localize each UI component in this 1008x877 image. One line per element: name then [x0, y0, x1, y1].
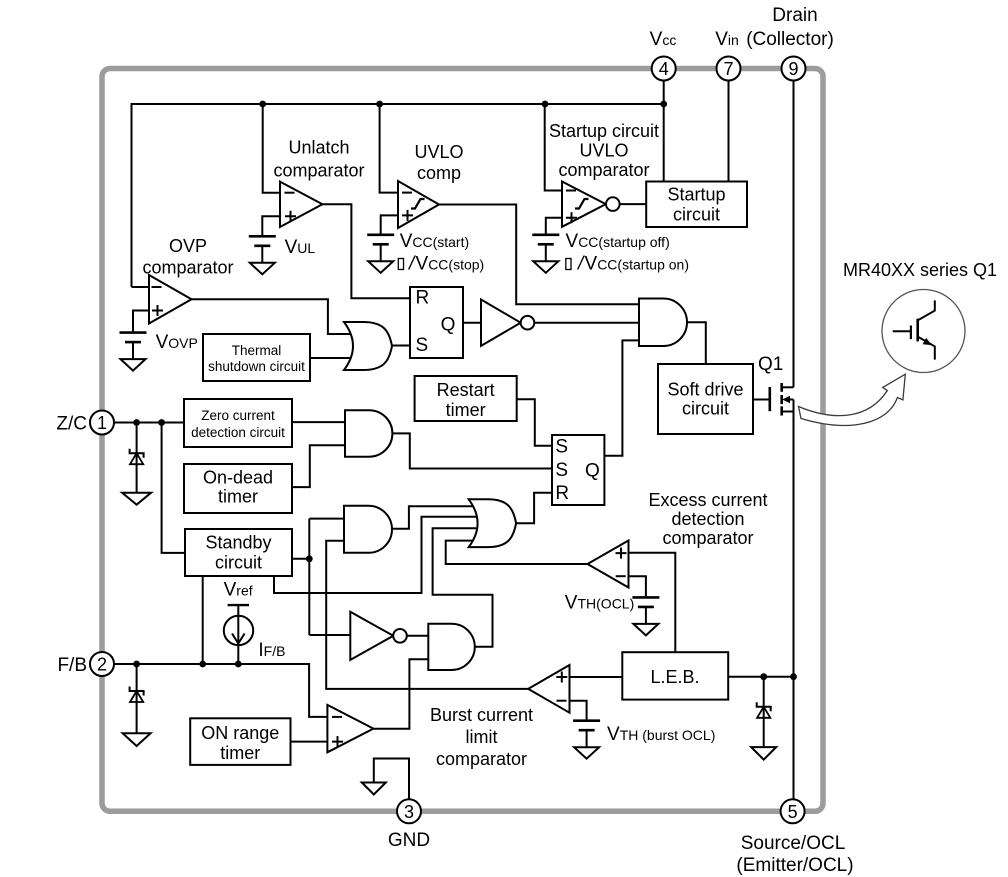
svg-text:(Collector): (Collector) [746, 29, 834, 50]
transistor Q1 MOSFET [768, 387, 771, 411]
zener diode at Z/C pin [136, 423, 138, 493]
svg-text:comparator: comparator [662, 528, 753, 548]
comparator unlatch [280, 182, 322, 227]
inverter after latch1 [481, 300, 521, 346]
comparator OVP [149, 275, 192, 324]
wire L.E.B. output to source line [728, 676, 793, 678]
wire Vcc top bus [132, 104, 664, 287]
MR40XX series Q1 circle [882, 290, 965, 373]
svg-text:circuit: circuit [682, 399, 729, 419]
svg-text:VCC(startup on): VCC(startup on) [585, 254, 690, 275]
svg-text:Q1: Q1 [758, 354, 783, 375]
node junction Z/C at zener [133, 419, 140, 426]
svg-text:VTH(OCL): VTH(OCL) [565, 593, 634, 614]
svg-text:limit: limit [466, 727, 498, 747]
svg-text:VUL: VUL [285, 237, 316, 258]
svg-text:VOVP: VOVP [156, 332, 198, 353]
comparator excess current detection [588, 541, 629, 588]
svg-text:detection circuit: detection circuit [191, 425, 285, 440]
node junction F/B at zener [133, 661, 140, 668]
zener diode at source line [763, 677, 765, 747]
svg-text:3: 3 [404, 802, 414, 822]
battery VTH(burst OCL) [573, 719, 600, 722]
wire ON range timer to comparator plus input [291, 741, 328, 743]
soft drive circuit block [658, 364, 753, 434]
svg-text:UVLO: UVLO [579, 141, 628, 161]
svg-text:2: 2 [97, 655, 107, 675]
on-dead timer block [184, 464, 292, 513]
svg-text:1: 1 [97, 413, 107, 433]
OR gate U1 (OVP/thermal) [344, 322, 392, 370]
svg-text:F/B: F/B [57, 655, 87, 676]
wire standby output branch vertical [308, 519, 310, 635]
svg-text:Q: Q [441, 315, 456, 336]
AND gate drive (3-input) [639, 299, 687, 347]
svg-text:VCC(start): VCC(start) [400, 231, 469, 252]
svg-text:GND: GND [388, 830, 430, 851]
curved arrow to MR40XX circle [799, 374, 906, 425]
wire restart timer to latch2 S input [517, 399, 552, 446]
svg-text:Burst current: Burst current [430, 705, 533, 725]
svg-text:Vin: Vin [715, 29, 739, 50]
wire OR gate to latch2 R input [516, 493, 552, 524]
IC boundary border [102, 69, 823, 812]
svg-text:Standby: Standby [205, 533, 271, 553]
svg-text:4: 4 [659, 59, 669, 79]
wire unlatch comparator plus input to VUL [262, 216, 280, 236]
svg-text:VCC(startup off): VCC(startup off) [566, 231, 670, 252]
wire UVLO comp plus input to VCC(start) [381, 215, 398, 234]
node junction Z/C at standby branch [158, 419, 165, 426]
wire Vref bar [228, 604, 249, 606]
svg-text:shutdown circuit: shutdown circuit [208, 359, 305, 374]
wire thermal shutdown to OR gate [310, 357, 352, 359]
wire standby circuit output [292, 558, 309, 560]
wire pin4 to startup circuit [663, 81, 665, 182]
wire standby circuit to F/B line [202, 576, 204, 664]
svg-text:Vcc: Vcc [650, 29, 677, 50]
node junction on bus at UVLO comp [376, 101, 383, 108]
wire pin3 GND connection [374, 759, 409, 800]
ground symbol at pin3 [362, 783, 386, 795]
svg-text:S: S [555, 437, 568, 458]
svg-text:Excess current: Excess current [648, 490, 767, 510]
svg-text:Z/C: Z/C [56, 414, 87, 435]
wire burst comparator output to AND2 [326, 541, 528, 689]
svg-text:Soft drive: Soft drive [667, 380, 743, 400]
wire UVLO comp minus input [380, 104, 398, 193]
svg-text:Drain: Drain [772, 5, 817, 26]
wire OVP comparator output to OR gate [192, 299, 353, 334]
AND gate burst [428, 624, 474, 670]
wire excess current comparator output to OR gate [446, 541, 588, 564]
label VCC(startup on) with box glyph [566, 259, 571, 270]
svg-text:Thermal: Thermal [232, 343, 282, 358]
label VCC(stop) with box glyph [398, 259, 403, 270]
wire latch2 Q output to AND gate [604, 340, 639, 455]
node junction on source line [790, 673, 797, 680]
AND gate zero-current [345, 410, 392, 457]
svg-text:comparator: comparator [558, 160, 649, 180]
svg-text:comp: comp [417, 163, 461, 183]
current source IF/B [224, 616, 253, 645]
zener diode at F/B pin [136, 664, 138, 733]
wire pin1 Z/C to zero current detection circuit [114, 422, 184, 424]
AND gate standby [344, 506, 392, 553]
wire burst comparator minus input to VTH(burst OCL) [570, 701, 587, 721]
node junction F/B at standby branch [199, 661, 206, 668]
standby circuit block [185, 529, 292, 576]
wire AND2 output to OR gate [392, 506, 476, 529]
node junction on bus at unlatch comparator [259, 101, 266, 108]
svg-text:UVLO: UVLO [414, 142, 463, 162]
svg-text:OVP: OVP [169, 236, 207, 256]
svg-text:R: R [555, 483, 569, 504]
svg-text:S: S [555, 460, 568, 481]
wire unlatch comparator minus input [263, 104, 280, 193]
battery VCC(start) [367, 234, 394, 237]
svg-text:VTH (burst OCL): VTH (burst OCL) [607, 724, 715, 745]
svg-text:Vref: Vref [224, 580, 253, 601]
pin 2 F/B [90, 652, 114, 676]
node junction at zener on source line [760, 673, 767, 680]
svg-text:circuit: circuit [215, 553, 262, 573]
svg-text:timer: timer [446, 400, 486, 420]
node junction F/B at current source [235, 661, 242, 668]
wire AND3 output to OR gate [433, 528, 493, 647]
wire pin2 F/B line [114, 664, 327, 717]
pin 3 GND [397, 799, 421, 823]
node junction standby output [306, 555, 313, 562]
node junction on bus at startup UVLO comparator [542, 101, 549, 108]
wire latch Q to inverter [463, 322, 481, 324]
wire standby branch to AND gate [309, 518, 345, 520]
svg-text:comparator: comparator [273, 161, 364, 181]
battery VUL [249, 235, 276, 238]
svg-text:comparator: comparator [436, 749, 527, 769]
startup circuit block [646, 182, 747, 228]
wire standby circuit lower output to OR gate [274, 517, 476, 593]
svg-text:(Emitter/OCL): (Emitter/OCL) [736, 855, 853, 876]
ON range timer block [190, 718, 290, 765]
pin 4 Vcc [652, 57, 676, 81]
wire inverter to AND gate [534, 322, 639, 324]
wire excess comparator minus input to VTH(OCL) [629, 576, 646, 597]
svg-text:5: 5 [788, 802, 798, 822]
wire startup UVLO comparator output to startup circuit [620, 203, 647, 205]
L.E.B. block [622, 652, 728, 699]
svg-text:comparator: comparator [142, 258, 233, 278]
battery VTH(OCL) [632, 596, 659, 599]
wire OR gate to latch S input [392, 345, 410, 347]
restart timer block [415, 376, 517, 421]
wire unlatch comparator output to latch R input [322, 204, 410, 298]
wire standby branch to inverter [309, 634, 350, 636]
svg-text:detection: detection [671, 509, 744, 529]
wire zero current detection to AND gate [292, 421, 345, 423]
OR gate to latch2 R [469, 499, 516, 547]
svg-text:timer: timer [220, 743, 260, 763]
pin 9 Drain [782, 57, 806, 81]
svg-text:Restart: Restart [437, 380, 495, 400]
inverter2 [350, 612, 393, 660]
svg-text:Source/OCL: Source/OCL [741, 833, 846, 854]
wire pin9 drain line [793, 81, 795, 388]
svg-text:circuit: circuit [673, 205, 720, 225]
wire AND gate output to latch2 S input [392, 433, 552, 468]
wire L.E.B. to burst comparator plus input [570, 676, 623, 678]
wire OVP comparator plus input to VOVP [133, 311, 149, 333]
svg-text:9: 9 [788, 59, 798, 79]
wire current source IF/B to F/B line [237, 605, 239, 664]
wire inverter2 output to AND3 [407, 635, 429, 637]
svg-text:ON range: ON range [201, 723, 279, 743]
latch2 SSR flip-flop [552, 435, 604, 505]
wire startup UVLO comparator plus input [546, 218, 562, 235]
battery VOVP [120, 331, 147, 334]
IGBT symbol inside circle [893, 330, 910, 332]
latch1 RS flip-flop [410, 287, 463, 358]
pin 5 Source/OCL [781, 799, 805, 823]
wire excess comparator plus input to L.E.B. [629, 553, 676, 653]
node junction on bus at pin 4 [660, 101, 667, 108]
wire OVP comparator minus input [132, 286, 150, 288]
svg-text:Zero current: Zero current [201, 408, 275, 423]
zero current detection circuit block [184, 399, 292, 447]
svg-text:MR40XX series Q1: MR40XX series Q1 [843, 260, 997, 280]
svg-text:Unlatch: Unlatch [288, 138, 349, 158]
wire soft drive circuit to Q1 gate [753, 399, 770, 401]
pin 7 Vin [717, 57, 741, 81]
svg-text:Startup: Startup [667, 185, 725, 205]
svg-text:timer: timer [218, 487, 258, 507]
svg-text:Startup circuit: Startup circuit [549, 121, 659, 141]
comparator UVLO [398, 181, 439, 228]
svg-text:L.E.B.: L.E.B. [650, 667, 699, 687]
comparator startup UVLO [562, 182, 606, 227]
wire comparator output to AND3 [373, 659, 428, 728]
svg-text:R: R [416, 288, 430, 309]
svg-text:On-dead: On-dead [203, 468, 273, 488]
svg-text:Q: Q [585, 461, 600, 482]
battery VCC(startup) [532, 234, 559, 237]
svg-text:S: S [416, 335, 429, 356]
thermal shutdown circuit block [203, 334, 310, 381]
wire Q1 source line to pin5 [793, 400, 795, 800]
wire UVLO comp output to AND gate [439, 205, 639, 305]
comparator ON range / burst [327, 705, 373, 752]
svg-text:IF/B: IF/B [258, 640, 285, 661]
wire on-dead timer to AND gate [292, 445, 345, 487]
wire startup UVLO comparator minus input [545, 104, 562, 191]
wire AND gate output to soft drive circuit [687, 322, 706, 364]
comparator burst current limit [528, 665, 569, 713]
wire Z/C to standby circuit [162, 423, 185, 553]
svg-text:VCC(stop): VCC(stop) [416, 254, 485, 275]
svg-text:7: 7 [723, 59, 733, 79]
wire pin7 to startup circuit [728, 81, 730, 182]
pin 1 Z/C [90, 411, 114, 435]
